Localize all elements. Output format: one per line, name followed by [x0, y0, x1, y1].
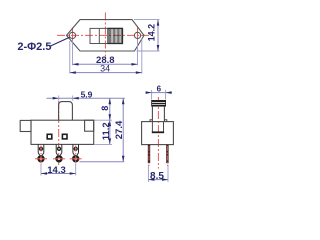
- terminal 1: [35, 144, 47, 164]
- lip right of knob: [164, 120, 166, 122]
- dimension 6 ext ticks: [151, 90, 153, 100]
- dimension 28.8 extension right: [137, 40, 139, 65]
- plate outline (octagon): [67, 20, 145, 51]
- svg-text:5.9: 5.9: [81, 89, 93, 99]
- left mounting tab: [20, 120, 31, 131]
- extension terminals bottom: [80, 161, 125, 163]
- dimension 6 arrow right: [166, 91, 172, 94]
- dimension 34 arrow right: [136, 71, 142, 74]
- svg-text:11.2: 11.2: [101, 122, 112, 140]
- contact square left: [47, 134, 52, 139]
- dimension 5.9 arrow right: [73, 97, 79, 100]
- opening divider: [98, 28, 100, 43]
- dimension 14.3 arrow left: [41, 172, 47, 175]
- dimension 14.2 extension bottom: [137, 50, 160, 52]
- mounting hole left: [69, 32, 75, 38]
- centerline vertical (red) side view: [157, 97, 159, 169]
- knob cap (serrated) side view: [152, 100, 166, 106]
- dimension 8 arrow top: [109, 98, 112, 104]
- svg-text:2-Φ2.5: 2-Φ2.5: [17, 41, 51, 53]
- dimension 5.9 line (extends right as top reference): [47, 97, 125, 99]
- svg-text:27.4: 27.4: [114, 120, 125, 139]
- dimension 14.2 line: [157, 20, 159, 51]
- dimension 8.5 extension left: [147, 165, 149, 183]
- dimension 14.2 extension top: [134, 19, 160, 21]
- dimension 27.4 arrow bottom: [122, 156, 125, 162]
- stem inside body: [152, 122, 163, 133]
- dimension 14.2 arrow bottom: [157, 45, 160, 51]
- centerline hole right (red): [137, 28, 139, 44]
- dimension 14.3 extension left: [40, 165, 42, 176]
- body side view: [142, 122, 174, 145]
- pin right side view: [166, 145, 168, 164]
- slider opening rectangle: [90, 28, 123, 43]
- dimension 34 extension right: [141, 38, 143, 74]
- svg-text:8: 8: [100, 106, 110, 111]
- dimension 28.8 line: [73, 63, 138, 65]
- dimension 27.4 arrow top: [122, 98, 125, 104]
- pin left side view: [148, 145, 150, 164]
- leader line 2-phi2.5: [51, 37, 70, 46]
- lip left of knob: [150, 120, 152, 122]
- extension body bottom: [95, 143, 113, 145]
- dimension 14.3 arrow right: [70, 172, 76, 175]
- dimension 14.2 arrow top: [157, 20, 160, 26]
- dimension 8.5 line: [148, 179, 168, 181]
- dimension 8.5 arrow left: [148, 178, 154, 181]
- terminal 3: [70, 144, 82, 164]
- slider knob (hatched): [108, 28, 123, 43]
- svg-text:8.5: 8.5: [150, 171, 164, 182]
- centerline vertical (red) top view: [104, 13, 106, 57]
- dimension 28.8 arrow right: [132, 63, 138, 66]
- dimension 14.3 line: [41, 173, 76, 175]
- knob front view: [59, 102, 73, 121]
- dimension 11.2 arrow top: [109, 120, 112, 126]
- dimension 8.5 extension right: [167, 165, 169, 183]
- centerline hole left (red): [72, 28, 74, 44]
- centerline vertical (red) front view: [58, 101, 60, 167]
- centerline horizontal (red) top view: [57, 34, 153, 36]
- dimension 8 arrow bottom: [109, 114, 112, 120]
- terminal 2: [53, 144, 65, 161]
- dimension 34 arrow left: [70, 71, 76, 74]
- dimension 34 extension left: [69, 41, 71, 74]
- dimension 8.5 arrow right: [162, 178, 168, 181]
- right mounting tab: [85, 120, 94, 131]
- knob shaft side view: [152, 106, 164, 121]
- body front view: [31, 120, 94, 144]
- svg-text:6: 6: [157, 84, 162, 93]
- dimension 5.9 arrow left: [53, 97, 59, 100]
- dimension 5.9 ext ticks: [58, 96, 60, 101]
- dimension 28.8 arrow left: [73, 63, 79, 66]
- dimension 6 arrow left: [146, 91, 152, 94]
- dimension 8 / 11.2 line: [109, 98, 111, 144]
- dimension 27.4 line: [122, 98, 124, 162]
- dimension 28.8 extension left: [72, 40, 74, 65]
- mounting hole right: [134, 32, 140, 38]
- svg-text:14.2: 14.2: [146, 24, 156, 42]
- dimension 11.2 arrow bottom: [109, 138, 112, 144]
- svg-text:34: 34: [100, 64, 110, 74]
- dimension 6 line: [146, 92, 172, 94]
- contact square right: [62, 134, 67, 139]
- dimension 34 line: [70, 72, 142, 74]
- extension body top: [95, 119, 113, 121]
- dimension 14.3 extension right: [75, 165, 77, 176]
- svg-text:14.3: 14.3: [47, 165, 66, 176]
